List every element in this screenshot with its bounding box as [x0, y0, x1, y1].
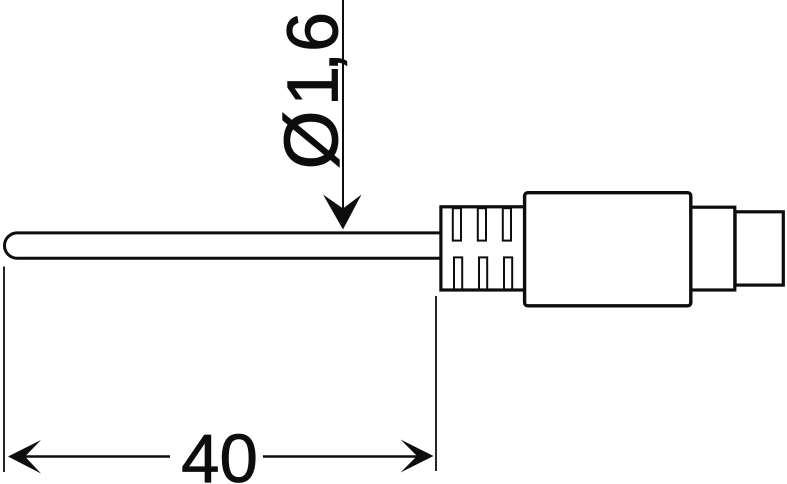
svg-text:Ø: Ø — [270, 110, 355, 169]
svg-text:40: 40 — [181, 420, 258, 484]
svg-text:1,6: 1,6 — [274, 12, 354, 106]
